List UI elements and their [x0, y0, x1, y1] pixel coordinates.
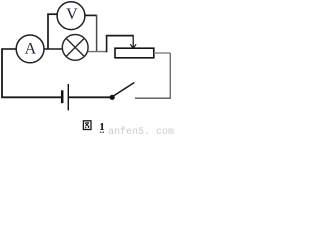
wire: [2, 48, 16, 50]
wire: [47, 14, 49, 49]
switch S1 pivot: [110, 95, 115, 100]
svg-text:A: A: [25, 41, 37, 58]
wire: [47, 13, 57, 15]
wire: [106, 35, 133, 37]
wire: [44, 48, 62, 50]
wire: [106, 36, 108, 53]
svg-text:V: V: [66, 6, 78, 23]
wire: [1, 48, 3, 97]
rheostat wiper arrow: [132, 35, 134, 48]
wire: [169, 53, 171, 98]
rheostat R1: [115, 48, 154, 58]
wire: [135, 97, 171, 99]
svg-text:anfen5. com: anfen5. com: [108, 126, 174, 137]
battery B1 long thin plate: [67, 84, 69, 110]
svg-text:1: 1: [99, 121, 105, 133]
wire: [96, 15, 98, 52]
watermark dots: [100, 132, 101, 133]
voltmeter V1: [57, 2, 85, 30]
switch S1 blade: [113, 83, 135, 97]
wire: [69, 96, 111, 98]
ammeter A1: [16, 35, 44, 63]
wire: [1, 96, 61, 98]
wire: [85, 14, 97, 16]
wire: [154, 52, 171, 54]
lamp L1: [62, 35, 88, 61]
wire: [88, 51, 107, 53]
battery B1 short thick plate: [61, 90, 64, 103]
label 图 glyph: [83, 121, 91, 130]
